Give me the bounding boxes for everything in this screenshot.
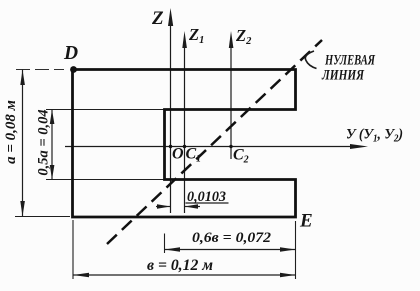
dimension b right arrowhead: [280, 273, 296, 278]
svg-text:НУЛЕВАЯ: НУЛЕВАЯ: [324, 53, 375, 69]
svg-text:Z: Z: [151, 8, 164, 29]
svg-text:E: E: [299, 211, 313, 232]
extension line right for dimensions 0.6b and b: [295, 221, 297, 279]
axis Z1 arrowhead: [182, 31, 187, 48]
dimension 0.5a arrow down: [50, 165, 55, 180]
dimension 0.5a line: [51, 110, 53, 180]
dimension b line: [73, 274, 296, 276]
extension line left for dimension 0.6b: [164, 234, 166, 254]
axis Z2 line: [230, 38, 232, 159]
dimension a arrow down: [20, 201, 25, 217]
svg-text:0,0103: 0,0103: [187, 189, 226, 205]
channel section outline: [73, 70, 296, 218]
extension line bottom for dimension 0.5a: [46, 179, 164, 181]
node C2 dot: [229, 145, 232, 148]
node O dot: [169, 145, 172, 148]
leader curve to neutral line caption: [305, 51, 316, 69]
point D dot: [70, 66, 77, 73]
extension line left for dimension b: [72, 220, 74, 279]
dimension 0.0103 left arrowhead: [157, 204, 171, 209]
dimension 0.5a arrow up: [50, 110, 55, 125]
axis Z1 line: [184, 38, 186, 213]
neutral line (dashed): [107, 40, 322, 244]
dimension 0.0103 right arrow line: [185, 206, 201, 208]
svg-text:ЛИНИЯ: ЛИНИЯ: [321, 68, 365, 84]
dimension 0.6b left arrowhead: [165, 247, 181, 252]
axis Y (Y1,Y2) line: [65, 146, 355, 148]
axis Z arrowhead: [168, 8, 173, 26]
svg-text:0,6в = 0,072: 0,6в = 0,072: [192, 230, 272, 246]
extension line top left of D: [16, 69, 64, 71]
dimension 0.0103 shelf line: [186, 202, 229, 204]
svg-text:O: O: [172, 146, 184, 163]
axis Z2 arrowhead: [229, 31, 234, 48]
extension line top for dimension 0.5a: [46, 109, 164, 111]
svg-text:a = 0,08 м: a = 0,08 м: [3, 100, 19, 164]
svg-text:в = 0,12 м: в = 0,12 м: [147, 257, 213, 274]
dimension 0.6b line: [165, 249, 296, 251]
axis Y arrowhead: [350, 144, 368, 149]
axis Z line: [170, 15, 172, 213]
dimension 0.0103 right arrowhead: [185, 204, 199, 209]
svg-text:0,5a = 0,04: 0,5a = 0,04: [36, 109, 52, 175]
svg-text:D: D: [63, 43, 78, 64]
dimension b left arrowhead: [73, 273, 89, 278]
node C1 dot: [183, 145, 186, 148]
dimension a arrow up: [20, 70, 25, 86]
dimension 0.0103 left arrow line: [156, 206, 171, 208]
dimension a=0.08 line: [22, 70, 24, 217]
extension line bottom for dimension a: [15, 216, 70, 218]
dimension 0.6b right arrowhead: [280, 247, 296, 252]
